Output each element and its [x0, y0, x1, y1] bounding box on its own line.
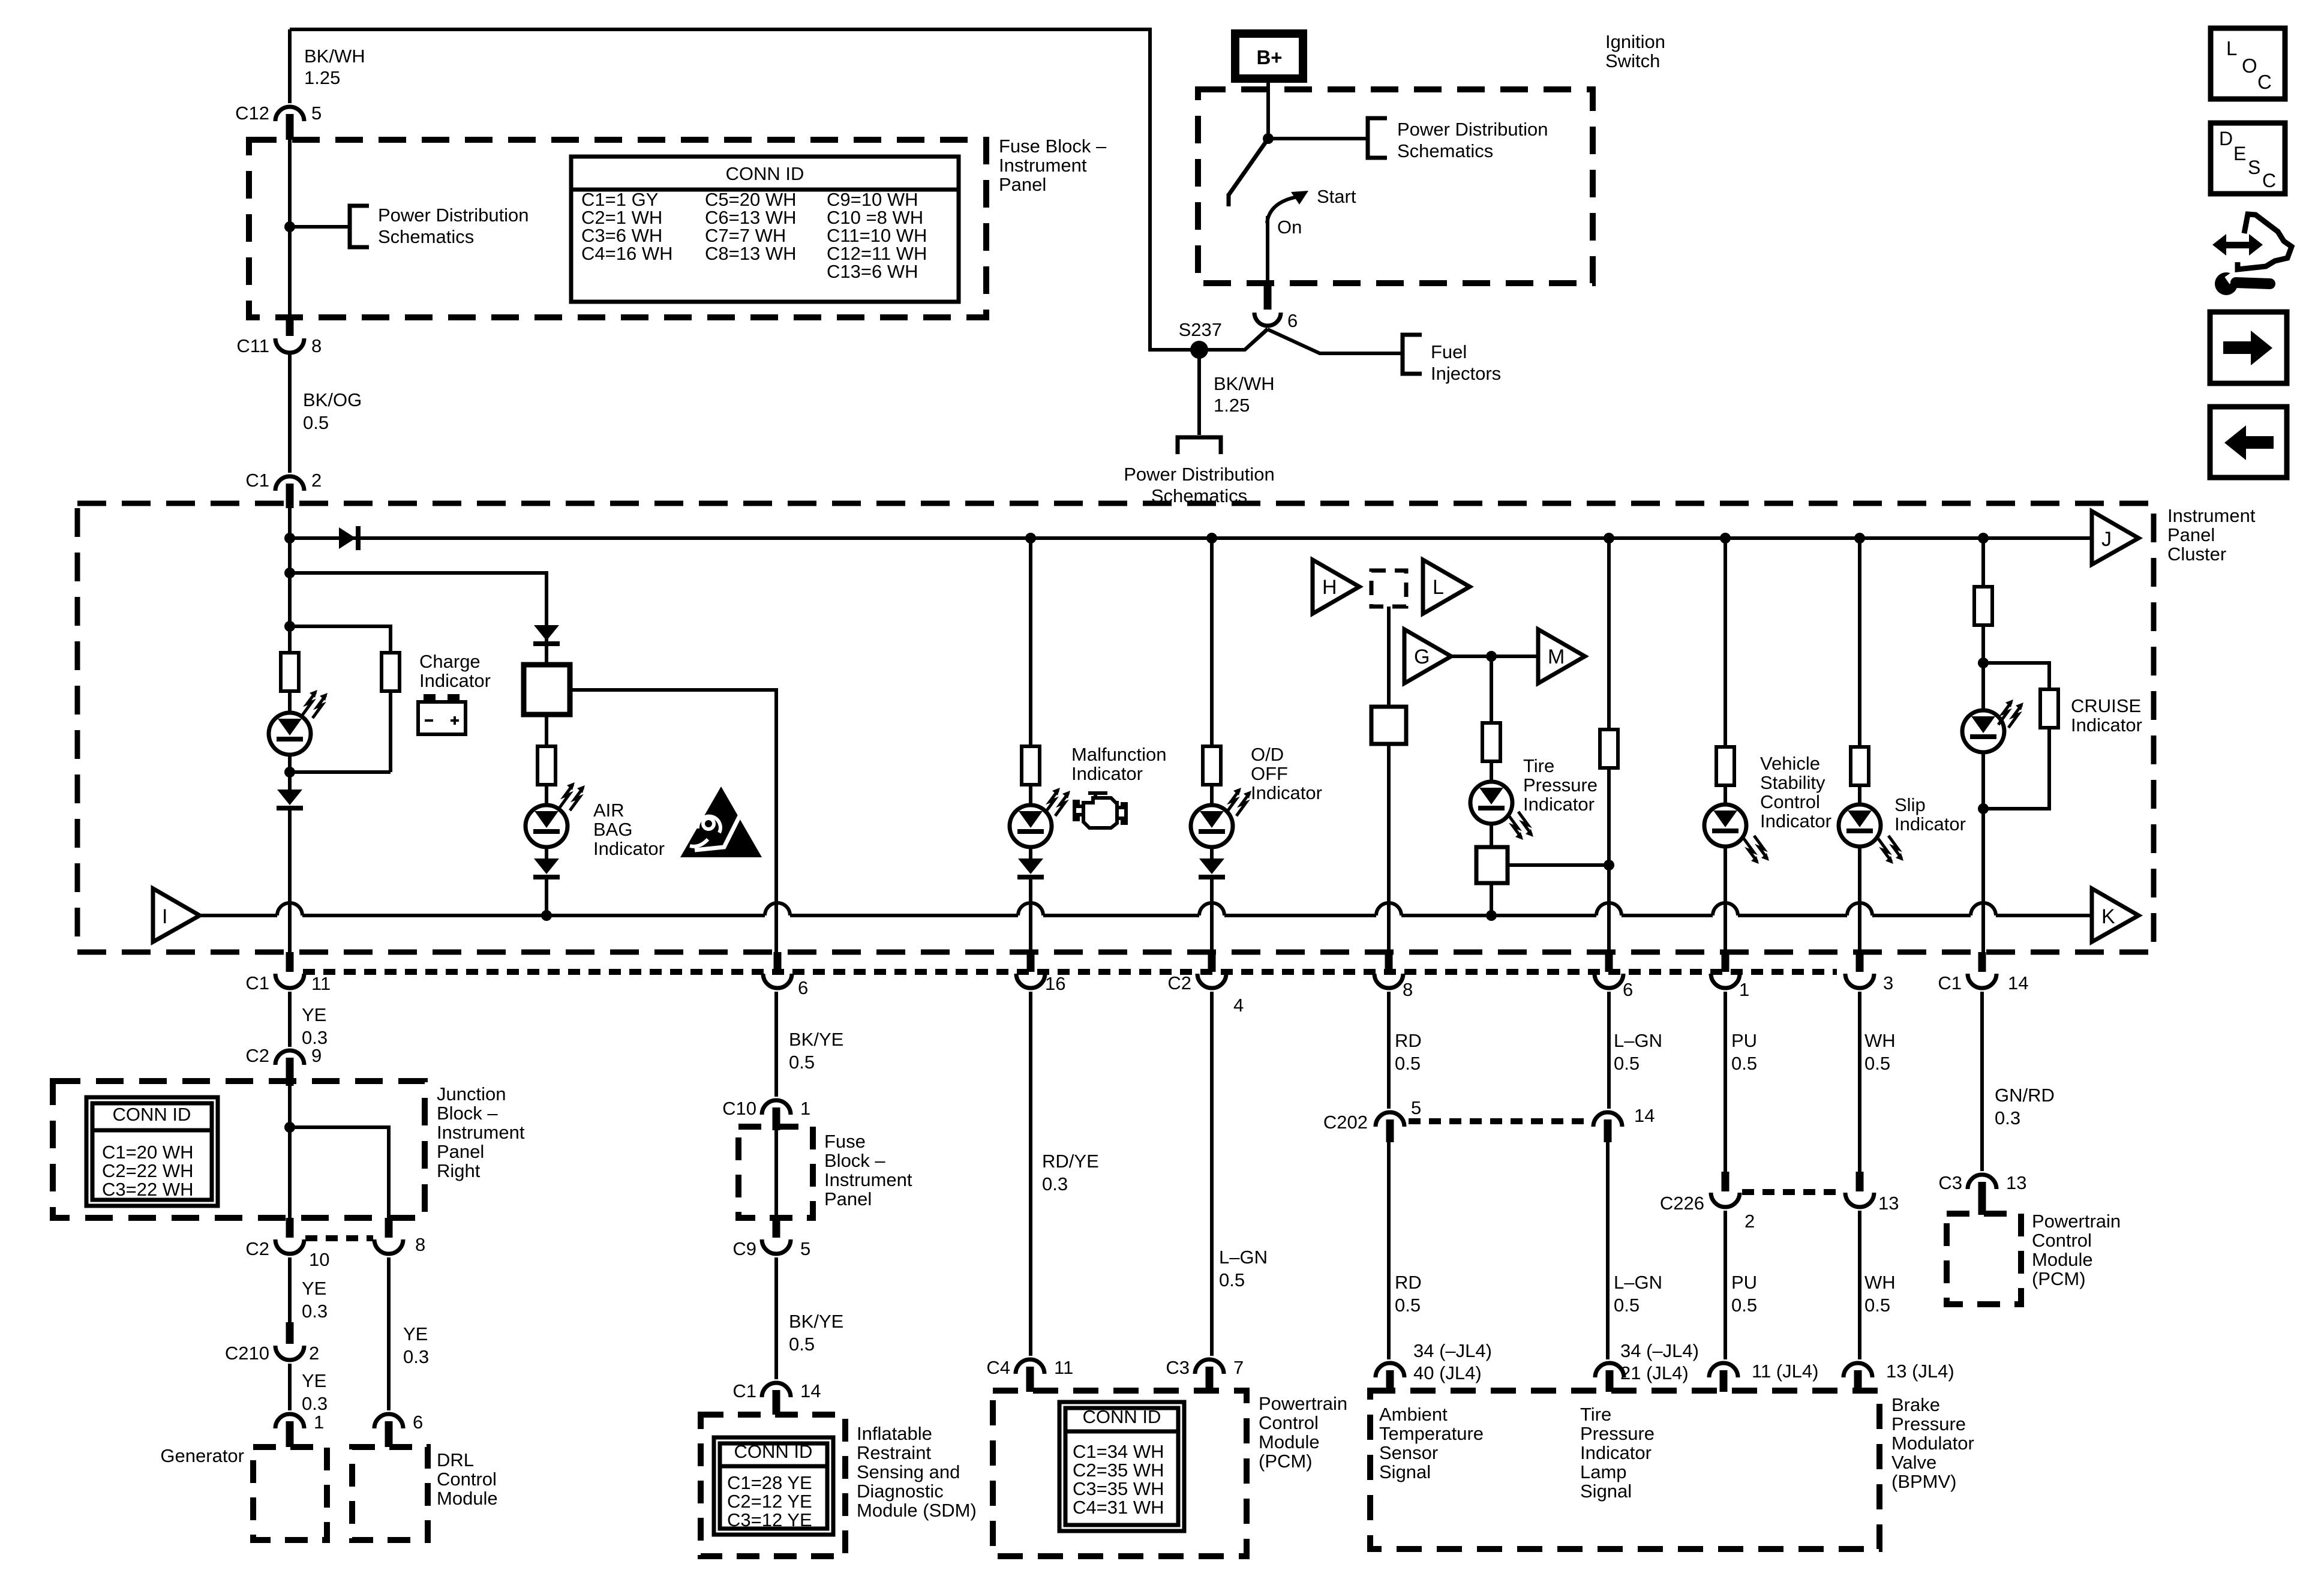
wire: ambient temp RD lower [1387, 1142, 1391, 1359]
svg-text:C3=35 WH: C3=35 WH [1073, 1478, 1164, 1499]
C226 dotted line [1742, 1189, 1843, 1195]
wire: ignition ON output [1266, 216, 1269, 284]
svg-text:34 (–JL4): 34 (–JL4) [1413, 1340, 1492, 1361]
svg-text:O/D: O/D [1251, 744, 1284, 765]
svg-text:0.5: 0.5 [1614, 1053, 1640, 1074]
svg-text:C3=22 WH: C3=22 WH [102, 1179, 193, 1200]
wire: O/D resistor to LED [1210, 785, 1214, 806]
resistor slip indicator [1851, 747, 1869, 785]
svg-text:Tire: Tire [1523, 755, 1554, 776]
svg-text:Injectors: Injectors [1431, 363, 1501, 384]
wire: air bag diode to bus [545, 879, 548, 915]
svg-text:C: C [2262, 170, 2276, 191]
svg-text:0.3: 0.3 [403, 1346, 429, 1367]
wire: to power distribution callout (ignition) [1268, 137, 1368, 140]
wire: charge left branch [288, 626, 292, 653]
svg-text:Instrument: Instrument [437, 1122, 525, 1143]
node: ignition feed junction [1263, 133, 1274, 144]
svg-text:Block –: Block – [824, 1150, 885, 1171]
wire: tire lamp L-GN lower [1606, 1142, 1610, 1359]
wire: junction block branch to pin 8 [290, 1127, 389, 1219]
wire: tire box to bus [1490, 883, 1493, 915]
svg-text:Module: Module [437, 1488, 498, 1509]
switch blade (ignition) [1229, 139, 1268, 195]
svg-text:2: 2 [309, 1343, 319, 1364]
svg-text:C: C [2257, 71, 2272, 93]
svg-text:CRUISE: CRUISE [2071, 695, 2141, 716]
svg-text:16: 16 [1045, 973, 1065, 994]
svg-text:B+: B+ [1256, 46, 1282, 68]
CONN ID table (PCM) [1059, 1402, 1184, 1531]
LED tire pressure indicator [1470, 782, 1512, 824]
svg-text:E: E [2233, 143, 2246, 164]
wire: main feed top horizontal BK/WH [290, 28, 1150, 31]
svg-text:BAG: BAG [593, 819, 632, 840]
connector C202 pin 5 [1376, 1112, 1404, 1127]
svg-text:6: 6 [1287, 310, 1298, 331]
svg-text:BK/OG: BK/OG [303, 389, 362, 410]
svg-text:Inflatable: Inflatable [857, 1423, 932, 1444]
wire hop (no connection) x=2020 [1199, 903, 1224, 915]
connector cluster bottom pin 16 [1027, 952, 1035, 972]
svg-text:Sensor: Sensor [1379, 1442, 1438, 1463]
svg-text:Valve: Valve [1891, 1452, 1936, 1473]
svg-text:WH: WH [1864, 1030, 1896, 1051]
solid box (H branch) [1371, 707, 1406, 744]
svg-text:C1: C1 [1938, 972, 1962, 993]
connector C2 pin 10 [286, 1218, 294, 1238]
svg-text:Block –: Block – [437, 1103, 498, 1124]
connector C202 pin 14 [1593, 1112, 1622, 1127]
svg-text:Junction: Junction [437, 1083, 506, 1104]
svg-text:2: 2 [311, 470, 322, 491]
svg-text:Panel: Panel [437, 1141, 484, 1162]
LED air bag indicator [526, 805, 568, 847]
svg-text:14: 14 [800, 1380, 821, 1401]
wire: slip branch upper [1858, 538, 1861, 748]
svg-text:Powertrain: Powertrain [2032, 1211, 2121, 1232]
connector C2 pin 8 (right) [385, 1218, 393, 1238]
svg-text:8: 8 [415, 1234, 425, 1255]
junction block dashed box [53, 1081, 425, 1218]
wire: tire lamp branch middle [1607, 768, 1611, 954]
CONN ID table (fuse block) [571, 157, 959, 302]
node: tire output joins right branch [1604, 860, 1614, 870]
instrument panel cluster dashed box [77, 503, 2154, 952]
connector C11 pin 8 [286, 314, 294, 336]
svg-text:C9: C9 [732, 1238, 756, 1259]
connector DRL pin 6 [374, 1414, 403, 1428]
svg-text:11: 11 [1054, 1357, 1073, 1378]
svg-text:C3=12 YE: C3=12 YE [727, 1509, 812, 1530]
wire hop (no connection) x=2876 [1713, 903, 1738, 915]
svg-text:C11: C11 [236, 335, 269, 356]
svg-text:Control: Control [1259, 1412, 1319, 1433]
solid box (tire pressure) [1476, 847, 1508, 883]
connector BPMV pin 13 [1843, 1363, 1872, 1377]
connector C2 pin 9 (junction block) [275, 1050, 304, 1065]
connector C1 pin 2 (cluster entry) [275, 476, 304, 491]
svg-text:Indicator: Indicator [1580, 1442, 1652, 1463]
wire: vehicle stability branch upper [1724, 538, 1727, 748]
callout bracket power distribution schematics (fuse block) [350, 206, 369, 247]
air bag module box [524, 665, 570, 715]
connector C210 pin 2 [286, 1322, 294, 1344]
wire: feed drop to S237 [1150, 28, 1268, 350]
PCM dashed box (center) [993, 1391, 1247, 1556]
icon box arrow left [2210, 407, 2287, 478]
wire: cruise output GN/RD [1980, 992, 1984, 1171]
svg-text:21 (JL4): 21 (JL4) [1620, 1362, 1689, 1383]
connector cluster bottom pin 8 [1385, 952, 1393, 972]
resistor malfunction indicator [1022, 746, 1040, 785]
svg-text:C3: C3 [1166, 1357, 1190, 1378]
connector C4 pin 11 (PCM) [1016, 1359, 1044, 1374]
svg-text:PU: PU [1731, 1272, 1757, 1293]
svg-text:14: 14 [2008, 972, 2028, 993]
wire: S237 down to power distribution [1197, 350, 1201, 435]
svg-text:0.5: 0.5 [1731, 1053, 1757, 1074]
ignition switch dashed box [1198, 89, 1593, 283]
wire hop (no connection) x=2315 [1376, 903, 1401, 915]
icon box LOC [2211, 28, 2285, 99]
svg-text:BK/WH: BK/WH [304, 46, 365, 67]
svg-text:0.5: 0.5 [1864, 1053, 1890, 1074]
connector cluster bottom pin 6 [774, 952, 782, 972]
wire: air bag branch diode feed [545, 625, 548, 665]
node: second feed junction [284, 568, 295, 578]
wire: air bag resistor to LED [545, 785, 548, 806]
svg-text:Power Distribution: Power Distribution [1397, 119, 1548, 140]
svg-text:I: I [162, 905, 167, 928]
svg-text:Modulator: Modulator [1891, 1433, 1974, 1454]
LED slip indicator [1839, 804, 1881, 846]
node: tire pressure branch junction [1486, 651, 1497, 662]
wire: O/D LED to diode [1210, 847, 1214, 858]
svg-text:5: 5 [800, 1238, 810, 1259]
wire: malfunction branch upper [1029, 538, 1032, 746]
diode air bag top [534, 625, 559, 641]
svg-text:YE: YE [302, 1370, 326, 1391]
svg-text:13 (JL4): 13 (JL4) [1886, 1361, 1954, 1382]
start position arc with arrow [1267, 197, 1298, 223]
wire: malfunction resistor to LED [1029, 785, 1032, 806]
connector tire lamp pin 21 [1595, 1363, 1624, 1377]
wire: air bag LED to diode [545, 847, 548, 858]
battery B+ symbol [1235, 34, 1303, 79]
wire: slip WH upper [1858, 992, 1861, 1173]
svg-text:YE: YE [302, 1004, 326, 1025]
svg-text:S: S [2248, 157, 2260, 178]
LED malfunction indicator [1010, 805, 1052, 847]
svg-text:S237: S237 [1179, 319, 1222, 340]
connector cluster bottom pin 14 [1978, 952, 1986, 972]
wire: BK/YE lower [774, 1257, 778, 1379]
wire: air bag module to resistor [545, 715, 548, 746]
resistor cruise indicator [2040, 689, 2058, 728]
svg-text:1: 1 [1739, 979, 1749, 1000]
svg-text:Switch: Switch [1605, 50, 1660, 71]
svg-text:C1=28 YE: C1=28 YE [727, 1472, 812, 1493]
svg-text:C2: C2 [245, 1045, 269, 1066]
svg-text:Right: Right [437, 1160, 481, 1181]
LED charge indicator [269, 713, 311, 755]
svg-text:8: 8 [1403, 979, 1413, 1000]
svg-text:1: 1 [800, 1098, 810, 1119]
connector C3 pin 7 (PCM) [1195, 1359, 1224, 1374]
wire: top bus line (diode feed) [290, 536, 2092, 540]
svg-text:0.5: 0.5 [1219, 1269, 1245, 1290]
svg-text:CONN ID: CONN ID [726, 163, 804, 184]
triangle connector I [153, 888, 200, 942]
resistor air bag indicator [538, 746, 556, 785]
wire hop (no connection) x=3306 [1971, 903, 1996, 915]
wire: malfunction diode to bus [1029, 879, 1032, 954]
svg-text:(BPMV): (BPMV) [1891, 1471, 1957, 1492]
wire: cruise resistor to junction [1981, 625, 1985, 664]
svg-text:C3: C3 [1938, 1172, 1962, 1193]
svg-text:Cluster: Cluster [2167, 544, 2226, 565]
wire hop (no connection) x=483 [277, 903, 302, 915]
CONN ID table (junction block) [86, 1097, 218, 1206]
svg-text:Instrument: Instrument [999, 155, 1087, 176]
svg-text:Restraint: Restraint [857, 1442, 931, 1463]
svg-text:BK/YE: BK/YE [789, 1311, 843, 1332]
svg-text:Instrument: Instrument [2167, 505, 2256, 526]
connector C226 pin 13 [1856, 1172, 1864, 1191]
svg-text:5: 5 [1411, 1097, 1421, 1118]
connector C226 pin 2 [1722, 1172, 1730, 1191]
wire: cruise branch upper [1981, 538, 1985, 587]
svg-text:Stability: Stability [1760, 772, 1825, 793]
svg-text:Module (SDM): Module (SDM) [857, 1500, 977, 1521]
svg-text:Panel: Panel [2167, 524, 2215, 545]
wire: ambient temp RD upper [1387, 992, 1391, 1109]
svg-text:C1: C1 [245, 972, 269, 993]
connector C3 pin 13 (PCM right) [1968, 1175, 1996, 1189]
wire: O/D diode to bus [1210, 879, 1214, 954]
svg-text:Slip: Slip [1894, 794, 1926, 815]
resistor cruise feed [1974, 587, 1992, 625]
callout bracket power distribution schematics (ignition) [1368, 118, 1387, 158]
wire: cruise to bus [1981, 809, 1985, 954]
svg-text:10: 10 [309, 1249, 329, 1270]
svg-text:Malfunction: Malfunction [1071, 744, 1167, 765]
svg-text:34 (–JL4): 34 (–JL4) [1620, 1340, 1699, 1361]
wire: charge output YE to junction block [288, 992, 292, 1047]
wire: feed through fuse block [288, 140, 292, 319]
wire: tire LED to box [1490, 824, 1493, 847]
diode charge indicator [277, 789, 302, 805]
svg-text:0.5: 0.5 [789, 1052, 815, 1073]
svg-text:13: 13 [1878, 1193, 1899, 1214]
svg-text:Indicator: Indicator [2071, 715, 2142, 736]
svg-text:5: 5 [311, 103, 322, 124]
svg-text:Generator: Generator [160, 1445, 244, 1466]
svg-text:Sensing and: Sensing and [857, 1461, 960, 1482]
svg-text:On: On [1277, 217, 1302, 238]
wire: charge parallel branch top [290, 626, 391, 653]
wire hop (no connection) x=1718 [1018, 903, 1043, 915]
BPMV dashed box [1370, 1391, 1879, 1549]
wire: tire box output to right branch [1508, 863, 1609, 867]
LED O/D OFF indicator [1191, 805, 1233, 847]
wire: ignition to S237 diagonal [1245, 329, 1268, 350]
svg-text:0.3: 0.3 [1042, 1173, 1068, 1194]
svg-text:0.5: 0.5 [1614, 1295, 1640, 1316]
wire: VSC LED to bus [1724, 846, 1727, 954]
resistor charge indicator right [382, 653, 400, 691]
svg-text:K: K [2101, 905, 2115, 928]
svg-text:Brake: Brake [1891, 1394, 1940, 1415]
svg-text:(PCM): (PCM) [1259, 1451, 1313, 1472]
callout bracket fuel injectors [1403, 335, 1422, 374]
svg-text:Module: Module [1259, 1431, 1320, 1452]
node: top bus junction [284, 533, 295, 544]
svg-text:6: 6 [1623, 979, 1633, 1000]
resistor tire pressure indicator [1482, 723, 1500, 761]
connector cluster bottom pin 6 [1605, 952, 1613, 972]
svg-text:1.25: 1.25 [304, 67, 340, 88]
wire: slip resistor to LED [1858, 785, 1861, 804]
svg-text:11: 11 [311, 973, 331, 994]
wire: G to M link [1451, 655, 1538, 658]
resistor O/D OFF indicator [1203, 746, 1221, 785]
svg-text:C4=31 WH: C4=31 WH [1073, 1497, 1164, 1518]
wire: charge right branch lower [389, 691, 392, 772]
icon vehicle with wrench [2212, 214, 2292, 295]
diode O/D OFF indicator [1199, 858, 1224, 874]
node S237 splice [1190, 341, 1208, 359]
svg-text:BK/YE: BK/YE [789, 1029, 843, 1050]
wire: branch to power distribution callout [290, 225, 350, 229]
svg-text:C13=6 WH: C13=6 WH [827, 261, 918, 282]
wire: cruise parallel right branch [1983, 663, 2049, 690]
svg-text:Signal: Signal [1379, 1461, 1431, 1482]
resistor charge indicator left [281, 653, 299, 691]
svg-text:Panel: Panel [999, 174, 1046, 195]
node: charge branch merge [284, 767, 295, 778]
svg-text:RD: RD [1395, 1272, 1422, 1293]
triangle connector L [1423, 560, 1470, 614]
wire: junction block internal [288, 1086, 292, 1219]
connector C10 pin 1 [762, 1100, 791, 1115]
svg-text:Indicator: Indicator [593, 838, 665, 859]
node: junction in fuse block [284, 221, 295, 232]
LED vehicle stability control indicator [1704, 804, 1746, 846]
wire: YE to generator [288, 1364, 292, 1410]
PCM dashed box (right) [1947, 1214, 2021, 1304]
battery icon (charge) [418, 702, 466, 734]
svg-text:Control: Control [1760, 791, 1820, 812]
connector C1 pin 14 (SDM) [762, 1383, 791, 1397]
wire: cruise LED down [1981, 663, 1985, 710]
svg-text:8: 8 [311, 335, 322, 356]
connector ambient temp pin 40 [1376, 1363, 1404, 1377]
svg-text:GN/RD: GN/RD [1995, 1085, 2055, 1106]
svg-text:C10: C10 [722, 1098, 756, 1119]
svg-text:Pressure: Pressure [1580, 1423, 1655, 1444]
wire: malfunction output RD/YE [1029, 992, 1032, 1356]
svg-text:J: J [2101, 528, 2112, 551]
svg-text:14: 14 [1634, 1105, 1655, 1126]
svg-text:CONN ID: CONN ID [1083, 1406, 1161, 1427]
svg-text:YE: YE [302, 1278, 326, 1299]
svg-text:C1: C1 [732, 1380, 756, 1401]
node: air bag to I-K bus [541, 910, 552, 921]
connector C12 pin 5 [275, 107, 304, 121]
resistor vehicle stability control indicator [1716, 747, 1734, 785]
svg-text:C1=34 WH: C1=34 WH [1073, 1441, 1164, 1462]
svg-text:Fuse: Fuse [824, 1131, 866, 1152]
triangle connector M [1538, 629, 1585, 683]
svg-text:BK/WH: BK/WH [1214, 373, 1275, 394]
wire: charge merge link [288, 755, 292, 789]
svg-text:C1=20 WH: C1=20 WH [102, 1142, 193, 1163]
wire hop (no connection) x=1296 [765, 903, 790, 915]
svg-text:Fuse Block –: Fuse Block – [999, 136, 1107, 157]
svg-text:C2: C2 [245, 1238, 269, 1259]
svg-text:1: 1 [314, 1412, 324, 1433]
wire: O/D output L-GN [1210, 992, 1214, 1356]
wire: BK/OG segment [288, 355, 292, 473]
svg-text:DRL: DRL [437, 1449, 474, 1470]
svg-text:Charge: Charge [419, 651, 481, 672]
svg-text:0.5: 0.5 [1864, 1295, 1890, 1316]
connector C9 pin 5 [773, 1218, 780, 1238]
svg-text:AIR: AIR [593, 800, 624, 821]
svg-text:Control: Control [437, 1469, 497, 1490]
diode air bag indicator [534, 858, 559, 874]
wire: slip LED to bus [1858, 846, 1861, 954]
wire: H branch from dashed box [1387, 607, 1391, 707]
junction block connector dotted line [305, 1235, 373, 1241]
svg-text:C2=22 WH: C2=22 WH [102, 1160, 193, 1181]
connector cluster bottom pin 11 [286, 952, 294, 972]
wire hop (no connection) x=2682 [1596, 903, 1622, 915]
node: cruise parallel bottom [1978, 803, 1989, 814]
svg-text:0.5: 0.5 [1395, 1295, 1421, 1316]
dashed box connector (H-L) [1371, 571, 1406, 607]
icon box DESC [2211, 123, 2285, 194]
connector ignition pin 6 [1264, 283, 1272, 310]
svg-text:3: 3 [1883, 972, 1893, 993]
svg-text:WH: WH [1864, 1272, 1896, 1293]
resistor tire lamp branch [1600, 730, 1618, 768]
wire: B+ drop [1266, 79, 1270, 140]
wire: YE to DRL module [387, 1257, 391, 1410]
node: tire box to I-K bus [1486, 910, 1497, 921]
svg-text:C8=13 WH: C8=13 WH [705, 243, 796, 264]
wire: slip WH lower [1858, 1211, 1861, 1359]
svg-text:C2: C2 [1167, 972, 1191, 993]
svg-text:Fuel: Fuel [1431, 341, 1467, 362]
wire: tire lamp L-GN upper [1607, 992, 1611, 1109]
connector BPMV pin 11 [1709, 1363, 1738, 1377]
svg-text:Ignition: Ignition [1605, 31, 1665, 52]
cluster bottom connector row dotted line [303, 969, 1837, 975]
svg-text:Signal: Signal [1580, 1481, 1632, 1502]
wire: YE to C210 [288, 1257, 292, 1325]
svg-text:Module: Module [2032, 1249, 2093, 1270]
node: charge branch split [284, 621, 295, 632]
svg-text:40 (JL4): 40 (JL4) [1413, 1362, 1482, 1383]
svg-text:Indicator: Indicator [1760, 810, 1831, 831]
svg-text:C4=16 WH: C4=16 WH [581, 243, 672, 264]
svg-text:0.5: 0.5 [1395, 1053, 1421, 1074]
fuse block instrument panel dashed box [249, 140, 986, 317]
triangle connector J [2092, 511, 2139, 565]
